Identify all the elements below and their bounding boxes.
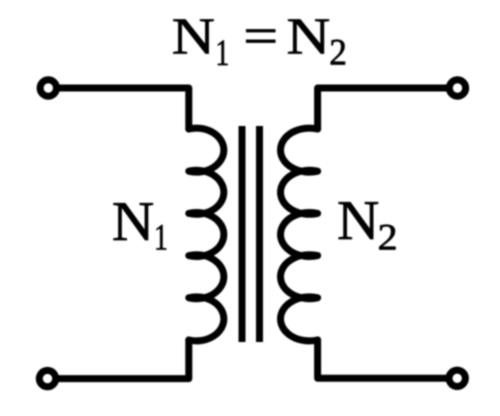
primary winding N1 (5 loops) (189, 128, 224, 341)
svg-text:1: 1 (215, 34, 229, 75)
terminal bottom-right (open circle) (449, 370, 465, 386)
secondary winding N2 (5 loops) (281, 128, 318, 341)
wire top-right: terminal to secondary top lead (318, 88, 450, 129)
svg-text:N: N (112, 191, 154, 253)
title equation N1 = N2 (172, 8, 347, 74)
wire bottom-left: primary bottom lead to terminal (56, 340, 189, 379)
svg-text:=: = (243, 8, 278, 65)
svg-text:N: N (337, 190, 379, 252)
wire bottom-right: secondary bottom lead to terminal (318, 340, 449, 378)
svg-text:2: 2 (329, 32, 347, 73)
svg-text:N: N (287, 8, 331, 65)
svg-text:2: 2 (378, 218, 398, 258)
core bar left (239, 126, 246, 342)
label N1 (primary winding turns) (112, 191, 168, 259)
terminal bottom-left (open circle) (39, 370, 55, 386)
core bar right (256, 126, 263, 342)
svg-text:1: 1 (154, 218, 168, 259)
terminal top-right (open circle) (449, 80, 465, 96)
wire top-left: terminal to primary top lead (57, 88, 189, 129)
terminal top-left (open circle) (40, 80, 56, 96)
svg-text:N: N (172, 8, 215, 66)
label N2 (secondary winding turns) (337, 190, 398, 258)
